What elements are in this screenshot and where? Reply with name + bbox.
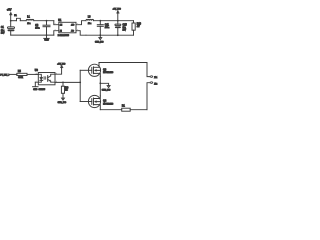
capacitor C11 labels	[105, 25, 110, 30]
resistor R9	[61, 82, 64, 98]
svg-text:C11: C11	[105, 25, 110, 27]
capacitor C6	[43, 21, 50, 35]
node junction C11 top	[99, 20, 101, 22]
pad X1-1	[150, 75, 153, 77]
wire R5 to opto	[27, 73, 38, 75]
wire riser to pad 1	[147, 63, 150, 77]
node junction at C6 bottom	[46, 34, 48, 36]
ground GND_ISO under C11	[99, 35, 102, 39]
wire R1 to pad riser	[130, 109, 147, 111]
wire to source ground	[100, 83, 108, 85]
svg-text:C1: C1	[1, 27, 5, 29]
svg-text:GND: GND	[44, 40, 49, 42]
node junction C11 bottom	[99, 34, 101, 36]
wire gate to Q3	[80, 69, 92, 71]
svg-text:GND_ISO: GND_ISO	[95, 42, 104, 44]
svg-text:+5V_ISO: +5V_ISO	[57, 64, 66, 66]
wire U1 pin 5 to iso rail	[76, 31, 86, 36]
wire top iso rail	[94, 20, 134, 22]
wire Q4 drain to R1	[100, 109, 121, 111]
wire	[34, 20, 54, 22]
resistor R5 labels	[18, 71, 24, 79]
wire into U1 pin 2	[54, 31, 59, 35]
svg-text:100n: 100n	[35, 28, 39, 30]
node junction C15 top	[117, 20, 119, 22]
resistor R16 labels	[137, 24, 142, 29]
wire bottom iso rail	[86, 34, 134, 36]
svg-text:X1-1: X1-1	[154, 77, 157, 79]
svg-text:10u: 10u	[27, 23, 30, 25]
wire gate to Q4	[80, 101, 92, 103]
node A junction	[10, 20, 12, 22]
svg-text:R5: R5	[18, 71, 22, 73]
wire	[11, 20, 17, 22]
opto pin numbers	[36, 73, 57, 82]
wire source junction to Q4	[99, 83, 101, 96]
opto LED D1	[35, 74, 42, 82]
inductor L6 labels	[88, 16, 91, 24]
svg-text:-VI: -VI	[60, 30, 63, 32]
opto light arrows	[43, 77, 46, 80]
fuse F1	[17, 18, 21, 20]
ground GND_ISO under R9	[62, 98, 65, 100]
wire Q3 source down	[99, 76, 101, 83]
transistor Q4 labels	[103, 101, 114, 106]
svg-text:R1: R1	[122, 106, 126, 108]
svg-text:Q3: Q3	[103, 70, 107, 72]
svg-text:IRF9Z24NS: IRF9Z24NS	[103, 72, 114, 74]
+5V power symbol	[9, 12, 12, 21]
svg-text:100n: 100n	[105, 27, 109, 29]
svg-text:X1-2: X1-2	[154, 83, 157, 85]
node junction C15 bottom	[117, 34, 119, 36]
IC U1 body	[59, 22, 76, 33]
inductor L6	[86, 19, 94, 20]
transistor Q4	[88, 95, 100, 109]
pin number 2	[55, 29, 56, 30]
ground GND	[44, 35, 49, 38]
transistor Q3 labels	[103, 70, 114, 75]
resistor R1	[122, 108, 131, 111]
svg-text:1k: 1k	[65, 90, 67, 92]
svg-text:-VO: -VO	[71, 30, 75, 32]
svg-text:16V: 16V	[123, 30, 127, 32]
svg-text:GND_ISO: GND_ISO	[58, 102, 67, 104]
wire into U1 pin 1	[54, 21, 59, 25]
svg-text:+VO: +VO	[71, 24, 75, 26]
svg-text:10u: 10u	[88, 23, 91, 25]
wire opto emitter to gate rail	[55, 81, 80, 83]
+5V_ISO power symbol top	[117, 10, 120, 20]
svg-text:U3: U3	[35, 70, 39, 72]
resistor R5	[17, 73, 27, 75]
wire opto cathode to ground	[34, 82, 36, 86]
capacitor C15 labels	[123, 25, 128, 32]
net flag PT_INT_B	[0, 73, 16, 76]
wire U1 pin 6 to L6	[76, 21, 86, 25]
ground GND at opto	[33, 86, 38, 88]
pad X1-2	[150, 81, 153, 83]
capacitor C1 polarized	[8, 21, 15, 35]
resistor R16	[132, 21, 135, 36]
svg-text:IRF9Z24NS: IRF9Z24NS	[103, 103, 114, 105]
transistor Q3	[88, 63, 100, 77]
node junction at R9 top	[62, 82, 64, 84]
svg-text:L6: L6	[88, 16, 91, 18]
node junction gate rail	[79, 82, 81, 84]
svg-text:CNY65: CNY65	[39, 89, 46, 91]
svg-text:GND: GND	[33, 89, 38, 91]
svg-text:L1: L1	[27, 17, 30, 19]
optocoupler U3 body	[38, 73, 55, 85]
wire riser to pad 2	[147, 83, 150, 110]
svg-text:GND_ISO: GND_ISO	[102, 89, 111, 91]
svg-text:330R: 330R	[18, 77, 23, 79]
pin number 5	[77, 29, 78, 30]
resistor R9 labels	[65, 87, 69, 91]
IC U1 pin labels	[60, 24, 75, 32]
svg-text:Q4: Q4	[103, 101, 107, 103]
inductor L1	[26, 19, 34, 20]
capacitor C15 polarized	[115, 21, 121, 36]
svg-text:DCR010505: DCR010505	[58, 35, 70, 37]
svg-text:C6: C6	[35, 25, 39, 27]
svg-text:+VI: +VI	[60, 24, 63, 26]
capacitor C6 labels	[35, 25, 39, 30]
ground GND_ISO at sources	[107, 86, 110, 88]
+5V_ISO power symbol at opto	[55, 65, 63, 74]
node junction at C6 top	[46, 20, 48, 22]
wire Q3 drain to pad	[99, 62, 147, 64]
node junction sources	[99, 82, 101, 84]
opto phototransistor Q	[48, 74, 55, 82]
capacitor C1 labels	[1, 27, 5, 34]
svg-text:F1: F1	[14, 15, 17, 17]
svg-text:4k7: 4k7	[137, 26, 140, 28]
svg-text:+5V_ISO: +5V_ISO	[113, 9, 122, 11]
wire left bottom rail	[11, 34, 54, 36]
pin number 1	[55, 23, 56, 24]
pin number 6	[77, 23, 78, 24]
svg-text:+5V: +5V	[7, 8, 12, 11]
capacitor C11	[97, 21, 103, 36]
wire gate rail vertical	[79, 70, 81, 101]
svg-text:16V: 16V	[1, 33, 5, 35]
wire	[20, 20, 26, 22]
inductor L1 labels	[27, 17, 30, 25]
